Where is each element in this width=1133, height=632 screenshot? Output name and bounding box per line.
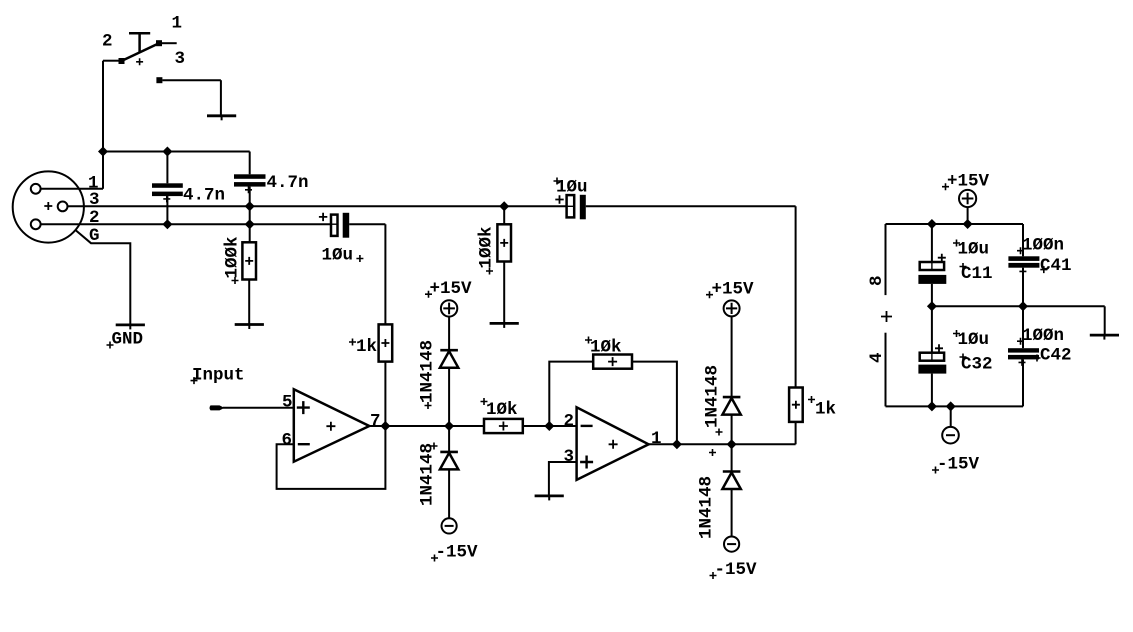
capacitor C4 10u right plate: [580, 195, 586, 220]
svg-text:-15V: -15V: [436, 543, 479, 563]
op-amp U2: [577, 407, 649, 480]
power +15V (D1): [441, 300, 457, 316]
wire C32 to bottom rail: [931, 374, 933, 407]
R2 label anchor: [486, 268, 493, 275]
junction node A at C1: [162, 147, 172, 157]
junction U1 out / R3: [380, 421, 390, 431]
capacitor C32 10u top plate: [920, 353, 944, 361]
C42 label anchor: [1034, 355, 1041, 362]
svg-text:1Øk: 1Øk: [486, 400, 518, 420]
U1 plus input mark: [297, 401, 310, 414]
junction bus3/C2: [245, 201, 255, 211]
+15V label anchor: [425, 291, 432, 298]
wire U2 output: [649, 443, 796, 445]
junction node A (switch/pin1): [98, 147, 108, 157]
-15V label anchor (supply): [932, 467, 939, 474]
C32 anchor tick: [931, 352, 933, 362]
wire down to R3: [384, 224, 386, 324]
wire D4 to -15V: [731, 489, 733, 537]
wire C41 to mid rail: [1022, 268, 1024, 307]
capacitor C41 100n: [1008, 256, 1039, 267]
resistor R5 10k: [593, 355, 632, 369]
C3 polarity plus: [319, 213, 327, 221]
U1 anchor mark: [326, 422, 335, 431]
capacitor C4 10u left plate: [567, 195, 575, 217]
ground (switch pin3): [207, 116, 236, 121]
wire R3 to op-amp output node: [384, 362, 386, 426]
junction U2 out / diodes: [727, 439, 737, 449]
svg-text:1ØØn: 1ØØn: [1022, 326, 1064, 346]
ground (R2): [490, 323, 519, 328]
op-amp U1: [294, 389, 370, 461]
wire node to U2 pin2: [549, 425, 576, 427]
junction bus2/C1: [162, 219, 172, 229]
junction bottom rail / C32: [927, 401, 937, 411]
C11 anchor tick: [931, 261, 933, 271]
wire U1 feedback loop pin6: [277, 426, 386, 489]
C3 label anchor: [356, 255, 363, 262]
C42 value anchor: [1017, 338, 1024, 345]
D4 label anchor: [709, 449, 716, 456]
wire top bus: [103, 151, 250, 153]
C4 polarity plus: [555, 195, 563, 203]
+15V label anchor (supply): [942, 183, 949, 190]
D1 label anchor: [425, 402, 432, 409]
svg-text:1ØØk: 1ØØk: [223, 236, 243, 278]
wire top rail: [886, 223, 1024, 225]
diode D2 1N4148: [440, 452, 458, 470]
svg-text:1N4148: 1N4148: [697, 476, 717, 539]
resistor R2 100k: [497, 224, 511, 261]
power -15V (D2): [442, 518, 457, 533]
wire R2 to ground: [503, 262, 505, 324]
wire bottom rail: [886, 405, 1024, 407]
C41 label anchor: [1040, 266, 1047, 273]
R5 label anchor: [585, 337, 592, 344]
C4 label anchor: [554, 178, 561, 185]
svg-text:1: 1: [172, 14, 183, 34]
C32 polarity plus: [935, 344, 943, 352]
junction mid rail / C11-C32: [927, 301, 937, 311]
C11 label anchor: [960, 263, 967, 270]
XLR pin 1 contact: [31, 184, 41, 194]
wire XLR pin1 to node: [41, 188, 103, 190]
wire C3 to corner: [349, 223, 385, 225]
svg-text:7: 7: [370, 412, 381, 432]
wire bus3 to R2: [503, 206, 505, 224]
diode D1 1N4148: [440, 350, 458, 368]
svg-text:2: 2: [102, 32, 113, 52]
svg-text:4: 4: [867, 352, 887, 363]
svg-text:8: 8: [867, 275, 887, 286]
svg-text:C42: C42: [1040, 346, 1072, 366]
C1 anchor mark: [163, 195, 170, 202]
resistor R1 100k: [242, 242, 256, 279]
wire top rail to C41: [1022, 224, 1024, 256]
R4 label anchor: [481, 398, 488, 405]
C2 anchor mark: [245, 186, 252, 193]
wire D3 to node: [731, 415, 733, 445]
svg-text:-15V: -15V: [937, 455, 980, 475]
ground (R1): [235, 325, 264, 330]
power +15V (D3): [724, 300, 740, 316]
switch S1 pole (diagonal): [122, 43, 160, 61]
wire node to D4: [731, 444, 733, 471]
wire +15V to D1: [448, 317, 450, 350]
power -15V (supply): [942, 427, 959, 444]
ground (U2 pin3): [535, 496, 564, 501]
-15V label anchor (D4): [710, 572, 717, 579]
wire top bus down to C2: [249, 152, 251, 175]
D3 label anchor: [716, 429, 723, 436]
capacitor C32 10u bottom plate: [918, 365, 946, 374]
wire feedback left: [549, 362, 593, 426]
wire C1 bottom lead (crosses bus3): [166, 196, 168, 224]
wire C1 top lead: [166, 152, 168, 184]
wire switch pin2 stub: [103, 60, 119, 62]
wire R4 to U2 pin2 node: [523, 425, 550, 427]
wire input to U1 pin5: [223, 407, 294, 409]
svg-text:1Øk: 1Øk: [590, 338, 622, 358]
junction bus2/C2: [245, 219, 255, 229]
switch contact pin3: [156, 77, 162, 83]
XLR anchor mark: [44, 202, 52, 210]
wire bottom rail to -15V: [950, 406, 952, 427]
wire feedback right: [632, 362, 677, 445]
wire R1 to ground: [248, 280, 250, 325]
svg-text:+15V: +15V: [430, 279, 473, 299]
svg-text:+15V: +15V: [947, 172, 990, 192]
svg-text:1N4148: 1N4148: [703, 365, 723, 428]
wire R6 to U2 output line: [795, 422, 797, 444]
capacitor C42 100n: [1008, 348, 1039, 359]
XLR pin 3 contact: [58, 202, 68, 212]
IC power pin 4 lead: [885, 333, 887, 407]
IC power pin 8 lead: [885, 224, 887, 295]
C32 label anchor: [960, 354, 967, 361]
wire D2 to -15V: [448, 469, 450, 518]
svg-text:1N4148: 1N4148: [418, 443, 438, 506]
svg-text:1ØØk: 1ØØk: [477, 226, 497, 268]
wire switch pin3 down: [220, 80, 222, 116]
svg-text:1Øu: 1Øu: [556, 178, 588, 198]
svg-text:4.7n: 4.7n: [183, 186, 225, 206]
svg-text:GND: GND: [112, 330, 144, 350]
capacitor C11 10u bottom plate: [918, 275, 946, 284]
wire C4 to right riser: [586, 205, 796, 207]
XLR connector X1 body: [13, 171, 84, 242]
wire C2 bottom lead to R1: [249, 187, 251, 243]
+15V label anchor (D3): [706, 291, 713, 298]
ground (XLR shell): [116, 325, 145, 330]
svg-text:Input: Input: [192, 366, 245, 386]
svg-text:+15V: +15V: [712, 280, 755, 300]
U2 plus input mark: [580, 456, 593, 469]
C3 anchor tick: [330, 223, 338, 225]
wire right riser down to R6: [795, 206, 797, 387]
wire D1 to node: [448, 368, 450, 426]
wire U2 pin3 to ground: [549, 462, 577, 496]
R6 label anchor: [808, 396, 815, 403]
R3 label anchor: [349, 339, 356, 346]
wire mid rail: [932, 305, 1105, 307]
input terminal arrow: [210, 405, 225, 410]
junction bus3/R2: [499, 201, 509, 211]
wire mid rail to ground: [1104, 306, 1106, 335]
svg-text:3: 3: [564, 447, 575, 467]
capacitor C2 4.7n: [234, 174, 266, 186]
wire +15V to D3: [731, 316, 733, 397]
wire +15V to top rail: [967, 207, 969, 224]
svg-text:1N4148: 1N4148: [418, 340, 438, 403]
C11 polarity plus: [938, 254, 946, 262]
switch S1 actuator: [129, 33, 150, 52]
svg-text:1Øu: 1Øu: [958, 330, 990, 350]
svg-text:1k: 1k: [356, 337, 377, 357]
wire node down to pin1 wire: [102, 152, 104, 189]
wire bus pin3: [68, 205, 567, 207]
resistor R4 10k: [484, 419, 523, 433]
junction top rail / +15V: [963, 219, 973, 229]
U2 anchor mark: [609, 440, 618, 449]
resistor R3 1k: [379, 324, 393, 361]
C42 anchor tick: [1019, 359, 1026, 366]
capacitor C1 4.7n: [152, 183, 183, 196]
capacitor C3 10u left plate: [331, 215, 338, 236]
wire switch pin2 down to node: [102, 61, 104, 152]
power -15V (D4): [724, 537, 739, 552]
svg-text:1: 1: [651, 429, 662, 449]
Input label anchor: [191, 377, 198, 384]
C41 value anchor: [1017, 247, 1024, 254]
switch anchor mark: [136, 58, 143, 65]
wire U1 output line: [369, 425, 484, 427]
U1 minus input mark: [298, 443, 310, 445]
junction bottom rail / -15V: [946, 401, 956, 411]
wire XLR shell to GND: [75, 230, 130, 325]
svg-text:6: 6: [282, 431, 293, 451]
wire C42 to bottom rail: [1022, 359, 1024, 406]
wire bus pin2: [41, 223, 331, 225]
switch contact pin2: [119, 58, 125, 64]
svg-text:1ØØn: 1ØØn: [1022, 236, 1064, 256]
U2 minus input mark: [581, 425, 593, 427]
GND label anchor: [107, 342, 114, 349]
junction U2 out / feedback: [672, 439, 682, 449]
wire mid rail to C32: [931, 306, 933, 352]
C41 anchor tick: [1019, 268, 1026, 275]
C4 anchor tick: [566, 205, 575, 207]
junction U2 pin2 / feedback: [544, 421, 554, 431]
svg-text:3: 3: [175, 49, 186, 69]
-15V label anchor: [431, 555, 438, 562]
wire rail to C11: [931, 224, 933, 262]
IC anchor mark: [881, 311, 892, 322]
R1 label anchor: [232, 277, 239, 284]
svg-text:1k: 1k: [815, 400, 836, 420]
svg-text:5: 5: [282, 393, 293, 413]
wire switch pin3 horizontal: [162, 79, 221, 81]
junction top rail / C11: [927, 219, 937, 229]
wire C11 to mid rail: [931, 284, 933, 306]
diode D4 1N4148: [722, 472, 740, 490]
diode D3 1N4148: [722, 397, 740, 415]
switch contact pin1: [156, 40, 162, 46]
capacitor C11 10u top plate: [920, 262, 944, 270]
power +15V (supply): [959, 190, 976, 207]
C32 value anchor: [953, 330, 960, 337]
XLR pin 2 contact: [31, 219, 41, 229]
junction mid rail / C41-C42: [1018, 301, 1028, 311]
capacitor C3 10u right plate: [343, 213, 350, 238]
svg-text:2: 2: [564, 412, 575, 432]
junction U1 out / diodes: [444, 421, 454, 431]
svg-text:1Øu: 1Øu: [958, 240, 990, 260]
wire node to D2: [448, 426, 450, 452]
svg-text:1Øu: 1Øu: [322, 246, 354, 266]
resistor R6 1k: [789, 388, 803, 422]
C11 value anchor: [953, 240, 960, 247]
svg-text:C41: C41: [1040, 256, 1072, 276]
wire switch pin1 stub: [162, 42, 177, 44]
svg-text:4.7n: 4.7n: [267, 173, 309, 193]
D2 label anchor: [431, 443, 438, 450]
wire mid rail to C42: [1022, 306, 1024, 348]
svg-text:-15V: -15V: [715, 560, 758, 580]
ground (mid rail): [1090, 335, 1119, 340]
